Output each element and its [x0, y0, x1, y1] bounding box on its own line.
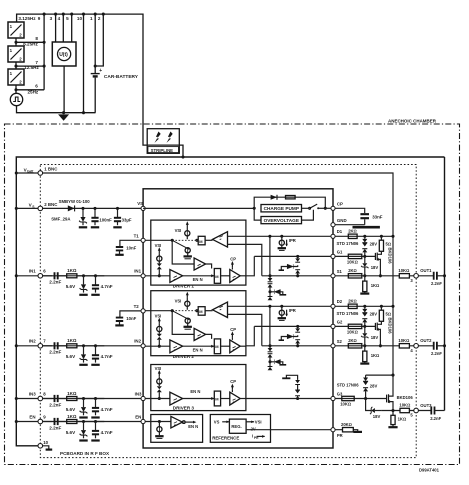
node 3	[54, 13, 57, 16]
svg-text:5: 5	[66, 16, 69, 21]
svg-text:2KΩ: 2KΩ	[348, 268, 357, 273]
svg-text:PR: PR	[337, 433, 343, 438]
svg-text:6: 6	[35, 84, 38, 89]
bnc out1	[414, 274, 419, 279]
pin S2	[331, 344, 335, 348]
wire T row	[145, 239, 172, 241]
node vs cp	[253, 207, 256, 210]
svg-text:IN3: IN3	[29, 391, 36, 396]
pin CP	[331, 206, 335, 210]
svg-text:2.2nF: 2.2nF	[431, 281, 442, 286]
clamp A zener pair G-S	[297, 256, 299, 275]
wire stripline pass-through	[147, 144, 179, 146]
pin PR	[331, 428, 335, 432]
bnc 6	[38, 274, 43, 279]
svg-text:18V: 18V	[373, 414, 381, 419]
MOSFET ch3	[387, 394, 389, 403]
node bus vs	[15, 207, 18, 210]
pin GND	[331, 223, 335, 227]
monoflop M2	[214, 269, 220, 284]
svg-text:1KΩ: 1KΩ	[398, 416, 407, 421]
car battery	[94, 66, 96, 73]
resistor 10k out	[399, 274, 409, 278]
svg-text:VSI: VSI	[255, 420, 262, 425]
pin T1	[141, 238, 145, 242]
node g za	[363, 255, 366, 258]
pull-down source	[185, 248, 190, 253]
monoflop M1	[198, 236, 205, 245]
svg-text:IN2: IN2	[134, 339, 141, 344]
svg-text:2: 2	[98, 16, 101, 21]
pin VS	[141, 206, 145, 210]
node s 1k	[363, 274, 366, 277]
bnc 10	[38, 444, 43, 449]
node bus en	[15, 420, 18, 423]
wire 2 down to battery	[95, 14, 103, 66]
svg-text:DRIVER 2: DRIVER 2	[173, 354, 195, 359]
pin T2	[141, 309, 145, 313]
svg-text:10KΩ: 10KΩ	[340, 402, 351, 407]
zener 28V pair	[364, 236, 366, 256]
svg-text:IPR: IPR	[289, 238, 296, 243]
clamp above G3	[286, 375, 297, 398]
node s mosfet	[379, 274, 382, 277]
zener 28V ch3	[365, 375, 367, 398]
svg-text:VSI: VSI	[155, 366, 162, 371]
resistor 10k G	[348, 254, 362, 258]
svg-text:33µF: 33µF	[122, 218, 132, 223]
svg-text:IN3: IN3	[135, 391, 142, 396]
wire pulse gen to ground rail	[17, 106, 96, 113]
wire S row internal	[262, 275, 331, 277]
input buffer d3	[170, 392, 183, 405]
pin IN3	[141, 396, 145, 400]
svg-text:10KΩ: 10KΩ	[398, 268, 409, 273]
wire VS internal	[143, 207, 254, 209]
input network IN2	[43, 338, 113, 365]
input buffer	[170, 270, 183, 283]
wire switch to CP pin	[318, 207, 331, 209]
svg-text:BKD106: BKD106	[388, 248, 393, 265]
node src3	[391, 409, 394, 412]
svg-text:U(t): U(t)	[59, 52, 68, 58]
svg-text:EN N: EN N	[190, 389, 200, 394]
wire G row internal	[254, 255, 331, 257]
svg-text:PCBOARD IN R F BOX: PCBOARD IN R F BOX	[60, 451, 110, 456]
svg-text:1 BNC: 1 BNC	[44, 167, 58, 172]
svg-text:STD 17N06: STD 17N06	[337, 241, 360, 246]
svg-text:10KΩ: 10KΩ	[399, 403, 410, 408]
svg-text:28V: 28V	[370, 383, 378, 388]
bnc out2	[414, 344, 419, 349]
wire U(t) to ground rail	[63, 66, 65, 113]
svg-text:STRIPLINE: STRIPLINE	[151, 148, 174, 153]
svg-text:2.2nF: 2.2nF	[430, 416, 441, 421]
wire gen chain	[15, 38, 17, 93]
wire tap 6	[16, 89, 44, 91]
pin IN1	[141, 274, 145, 278]
svg-text:20KΩ: 20KΩ	[341, 422, 352, 427]
svg-text:1KΩ: 1KΩ	[371, 283, 380, 288]
wire overvoltage left	[254, 208, 261, 220]
ground bnc10	[43, 446, 49, 449]
svg-text:REG.: REG.	[231, 424, 241, 429]
svg-text:S2: S2	[337, 339, 343, 344]
svg-text:OUT1: OUT1	[420, 268, 432, 273]
svg-text:batt: batt	[27, 170, 34, 174]
resistor 2k S	[348, 274, 362, 278]
charge pump box	[261, 205, 302, 212]
node shield	[443, 274, 446, 277]
svg-text:10nF: 10nF	[126, 316, 136, 321]
node 4	[62, 13, 65, 16]
node 9	[43, 13, 46, 16]
svg-text:2KΩ: 2KΩ	[348, 229, 357, 234]
voltage source U(t)	[52, 42, 76, 66]
pin EN	[141, 419, 145, 423]
node d 5r	[380, 235, 383, 238]
node bus vbatt	[15, 171, 18, 174]
wire IN3 row left	[16, 398, 143, 400]
svg-text:STD 17N06: STD 17N06	[337, 383, 360, 388]
node bus in2	[15, 344, 18, 347]
node g3 zener	[364, 397, 367, 400]
comparator (points left)	[213, 232, 228, 247]
svg-text:GND: GND	[337, 218, 347, 223]
node 2	[102, 13, 105, 16]
node d ipr	[280, 235, 283, 238]
resistor 1k to gnd	[364, 276, 366, 294]
svg-text:OUT3: OUT3	[420, 403, 432, 408]
svg-text:REFERENCE: REFERENCE	[212, 435, 239, 440]
wire bnc bus vertical	[43, 14, 45, 90]
svg-text:I: I	[252, 434, 253, 439]
switch dashed	[172, 239, 196, 241]
node sw contact	[317, 207, 319, 209]
wire top bus	[17, 14, 183, 157]
wire tap 7	[16, 65, 44, 67]
node vs zener	[81, 207, 84, 210]
pulse generator	[10, 93, 22, 105]
wire tap 8	[16, 41, 44, 43]
T1 cap 10nF	[120, 240, 141, 246]
stripline antenna box	[147, 129, 179, 154]
svg-text:OUT2: OUT2	[420, 338, 432, 343]
node 10gnd	[82, 111, 85, 114]
svg-text:33nF: 33nF	[372, 214, 383, 219]
wire reference to PR	[246, 429, 331, 431]
resistor 2k D	[348, 234, 357, 238]
svg-text:6.25Hz: 6.25Hz	[23, 41, 38, 46]
node s clampB	[268, 274, 271, 277]
svg-text:T1: T1	[134, 233, 140, 238]
generator G1 3.125Hz	[8, 22, 24, 38]
cap 2.2nF out	[434, 272, 437, 280]
wire D to S link	[269, 236, 271, 275]
svg-text:VSI: VSI	[155, 243, 162, 248]
wire vbatt to ch3 zener top	[366, 374, 393, 376]
node vs c2	[116, 207, 119, 210]
svg-text:CP: CP	[230, 256, 236, 261]
svg-text:2V: 2V	[251, 426, 256, 431]
wire S row	[335, 275, 399, 277]
pin G2	[331, 324, 335, 328]
input network IN1	[43, 268, 113, 295]
resistor 10k out3	[400, 408, 409, 412]
node 10	[82, 13, 85, 16]
svg-text:BKD106: BKD106	[397, 395, 414, 400]
generator G3 12.5Hz	[8, 69, 24, 85]
wire shield top and left bus	[16, 157, 444, 446]
svg-text:10nF: 10nF	[126, 245, 136, 250]
wire source row ch3	[366, 399, 400, 411]
en buffer triangle	[171, 416, 183, 428]
svg-text:EN: EN	[135, 414, 141, 419]
pin S1	[331, 274, 335, 278]
external MOSFET	[375, 253, 377, 261]
svg-text:CP: CP	[337, 201, 343, 206]
bnc 2	[38, 206, 43, 211]
svg-text:CP: CP	[230, 379, 236, 384]
svg-text:SMF_29A: SMF_29A	[51, 217, 70, 222]
wire EN row left	[16, 421, 143, 423]
mid amp	[172, 240, 194, 264]
svg-text:D99AT401: D99AT401	[419, 468, 440, 473]
wire IN1 row left	[16, 275, 143, 277]
node vs c1	[93, 207, 96, 210]
svg-text:3: 3	[50, 16, 53, 21]
ground (top circuit)	[58, 114, 69, 120]
svg-text:G3: G3	[337, 392, 343, 397]
svg-text:VS: VS	[137, 201, 143, 206]
svg-text:9: 9	[38, 16, 41, 21]
svg-text:S1: S1	[337, 269, 343, 274]
wire G3 row internal	[246, 398, 331, 400]
svg-text:IN1: IN1	[134, 269, 141, 274]
svg-text:4: 4	[58, 16, 61, 21]
bnc 8	[38, 396, 43, 401]
anechoic chamber boundary	[5, 124, 460, 465]
current source IPR	[279, 240, 284, 245]
svg-text:IN1: IN1	[29, 269, 36, 274]
channel 2 external	[335, 299, 446, 364]
svg-text:CHARGE PUMP: CHARGE PUMP	[264, 206, 299, 211]
svg-text:5Ω: 5Ω	[386, 241, 392, 246]
svg-text:18V: 18V	[371, 265, 379, 270]
node stripline-shield	[181, 155, 184, 158]
bnc 1	[38, 171, 43, 176]
switch blade	[172, 240, 189, 249]
svg-text:100nF: 100nF	[99, 218, 112, 223]
node sw join	[324, 207, 327, 210]
svg-text:G1: G1	[337, 250, 343, 255]
wire D row internal	[228, 235, 332, 237]
wire IN3 row internal	[145, 398, 170, 400]
overvoltage box	[261, 217, 302, 224]
wire D row to Vbatt	[335, 235, 393, 237]
input network IN3	[43, 391, 113, 418]
svg-text:SMBYW 01-100: SMBYW 01-100	[59, 199, 91, 204]
bnc out3	[414, 408, 419, 413]
resistor 20k PR	[335, 430, 358, 432]
svg-text:EN: EN	[29, 414, 35, 419]
zener SM6T27A	[79, 208, 87, 225]
node d vb	[391, 235, 394, 238]
node d za	[363, 235, 366, 238]
resistor 5ohm	[379, 240, 383, 251]
T2 cap 10nF	[120, 311, 141, 317]
pin D2	[331, 304, 335, 308]
zener 18V ch3 horizontal	[371, 408, 375, 413]
clamp B below S	[269, 276, 271, 297]
node T sw	[171, 239, 174, 242]
svg-text:VS: VS	[214, 420, 220, 425]
wire G3 row	[335, 398, 387, 400]
wire IN2 row left	[16, 345, 143, 347]
resistor 1k ch3	[392, 411, 394, 428]
svg-text:VSI: VSI	[175, 228, 182, 233]
wire G row	[335, 255, 375, 257]
clamp A lateral diode	[281, 267, 297, 271]
cap 2.2nF out3	[431, 407, 434, 415]
svg-text:G2: G2	[337, 320, 343, 325]
switch cp	[302, 207, 309, 209]
channel 2 internals	[228, 305, 332, 370]
svg-text:25Hz: 25Hz	[28, 90, 39, 95]
resistor 10k G3	[342, 396, 354, 400]
svg-text:10: 10	[43, 440, 48, 445]
svg-text:ANECHOIC CHAMBER: ANECHOIC CHAMBER	[388, 119, 437, 124]
svg-text:CAR-BATTERY: CAR-BATTERY	[104, 74, 139, 80]
node en	[158, 420, 161, 423]
bnc 9	[38, 419, 43, 424]
lightning bolt 2	[167, 132, 173, 143]
diode reverse protection	[68, 205, 75, 211]
capacitor 33uF	[114, 208, 121, 225]
wire overvoltage right actuator	[302, 210, 314, 220]
svg-text:+: +	[99, 68, 102, 74]
node battery top	[94, 64, 97, 67]
svg-text:1: 1	[90, 16, 93, 21]
wire shield right drop	[444, 157, 446, 411]
wire VS row	[16, 207, 143, 209]
svg-text:D2: D2	[337, 299, 343, 304]
pin G3	[331, 396, 335, 400]
node 1	[94, 13, 97, 16]
svg-text:EN N: EN N	[193, 277, 203, 282]
svg-text:IN2: IN2	[29, 339, 36, 344]
svg-text:3.125Hz: 3.125Hz	[18, 16, 36, 21]
wire driver output jog to G row	[246, 256, 254, 275]
node bus in1	[15, 274, 18, 277]
wire 1 down to battery	[94, 14, 96, 66]
svg-text:28V: 28V	[370, 242, 378, 247]
node bus in3	[15, 397, 18, 400]
pin D1	[331, 234, 335, 238]
capacitor 100nF	[91, 208, 98, 225]
input network EN	[43, 414, 113, 441]
node g3 clamp	[296, 397, 299, 400]
resistor cp	[286, 196, 296, 199]
generator G2 6.25Hz	[8, 46, 24, 62]
svg-text:2 BNC: 2 BNC	[44, 202, 58, 207]
pin IN2	[141, 344, 145, 348]
zener 18V	[364, 256, 366, 275]
wire comparator sense to S row	[228, 244, 262, 275]
node d link	[268, 235, 271, 238]
svg-text:D1: D1	[337, 229, 343, 234]
lightning bolt 1	[155, 132, 161, 143]
monoflop M3	[214, 391, 220, 406]
bnc 7	[38, 344, 43, 349]
svg-text:OVERVOLTAGE: OVERVOLTAGE	[264, 218, 299, 223]
svg-text:10: 10	[77, 16, 83, 21]
diode cp	[271, 195, 277, 200]
svg-text:T2: T2	[134, 304, 140, 309]
pin G1	[331, 254, 335, 258]
svg-text:DRIVER 1: DRIVER 1	[173, 284, 195, 289]
node vb ch3	[391, 374, 394, 377]
wire Vbatt row	[16, 173, 393, 375]
svg-text:EN N: EN N	[188, 424, 198, 429]
node 5	[70, 13, 73, 16]
svg-text:10KΩ: 10KΩ	[347, 260, 358, 265]
CP 33nF cap	[335, 208, 365, 224]
wire 3 4 5 into U(t)	[56, 14, 72, 42]
node utgnd	[62, 111, 65, 114]
svg-text:DRIVER 3: DRIVER 3	[173, 405, 195, 410]
wire 10 down	[83, 14, 85, 113]
svg-text:12.5Hz: 12.5Hz	[24, 65, 39, 70]
wire IN row internal	[145, 275, 170, 277]
wire M1 to comparator	[205, 239, 212, 241]
wire diode branch	[254, 197, 325, 208]
